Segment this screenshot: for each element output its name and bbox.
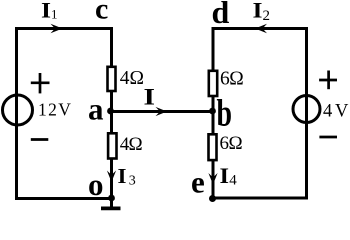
arrow I1 (current arrow on top-left wire, pointing right) [51, 24, 63, 34]
wire: b down to lower resistor [212, 110, 215, 136]
svg-text:e: e [191, 164, 205, 199]
svg-text:3: 3 [129, 174, 136, 189]
wire: a to b horizontal (middle branch) [110, 110, 214, 113]
wire: top-left horizontal (left loop top) [15, 27, 112, 30]
svg-text:4Ω: 4Ω [120, 134, 143, 155]
svg-text:o: o [88, 167, 104, 202]
wire: lower resistor down to node e / bottom [212, 159, 215, 200]
wire: top-right horizontal (right loop top) [212, 27, 308, 30]
junction dot at e [209, 195, 216, 202]
svg-text:I: I [253, 0, 263, 23]
polarity - of V1 [31, 138, 49, 141]
polarity + of V2 [319, 79, 337, 82]
ground: vertical stub [110, 198, 113, 207]
wire: resistor to node b [212, 96, 215, 113]
node b junction dot [209, 108, 216, 115]
resistor 6ohm lower-right (between b and e) [209, 134, 217, 160]
svg-text:b: b [217, 93, 233, 135]
arrow I4 (current arrow pointing down above node e) [208, 173, 217, 185]
svg-text:4V: 4V [323, 101, 350, 121]
svg-text:a: a [88, 92, 104, 127]
arrow I3 (current arrow pointing down above node o) [107, 171, 116, 183]
wire: d vertical down to resistor [212, 27, 215, 72]
svg-text:4: 4 [229, 173, 237, 189]
svg-text:d: d [212, 0, 230, 30]
resistor 4ohm upper-left (between c and a) [108, 67, 116, 91]
svg-text:c: c [95, 0, 108, 26]
wire: bottom-left horizontal [15, 197, 115, 200]
wire: resistor to node a [110, 91, 113, 113]
svg-text:12V: 12V [38, 100, 72, 120]
wire: bottom-right horizontal [212, 197, 308, 200]
svg-text:2: 2 [263, 8, 271, 24]
polarity + of V1 [31, 81, 50, 84]
svg-text:6Ω: 6Ω [220, 133, 243, 154]
wire: c vertical down to resistor [110, 27, 113, 68]
ground: bar [101, 206, 121, 210]
svg-text:I: I [41, 0, 51, 23]
resistor 6ohm upper-right (between d and b) [209, 71, 217, 96]
svg-text:I: I [118, 164, 127, 188]
svg-text:1: 1 [51, 6, 58, 21]
voltage source V2 4V (circle on right wire) [293, 96, 320, 123]
wire: right vertical (4V source branch) [305, 27, 308, 200]
svg-text:4Ω: 4Ω [120, 68, 144, 89]
svg-text:6Ω: 6Ω [220, 69, 243, 90]
wire: a down to lower resistor [110, 110, 113, 135]
arrow I (current arrow on a-b wire, pointing right) [156, 107, 168, 116]
svg-text:I: I [144, 84, 156, 109]
wire: lower resistor down to node o / bottom [110, 158, 113, 200]
resistor 4ohm lower-left (between a and o) [108, 133, 116, 158]
polarity - of V2 [319, 136, 337, 139]
arrow I2 (current arrow on top-right wire, pointing left) [255, 24, 267, 34]
svg-text:I: I [220, 163, 230, 188]
wire: left vertical (12V source branch) [15, 27, 18, 200]
voltage source V1 12V (circle on left wire) [3, 95, 33, 125]
junction dot at o (ground junction) [108, 195, 115, 202]
node a junction dot [107, 108, 114, 115]
